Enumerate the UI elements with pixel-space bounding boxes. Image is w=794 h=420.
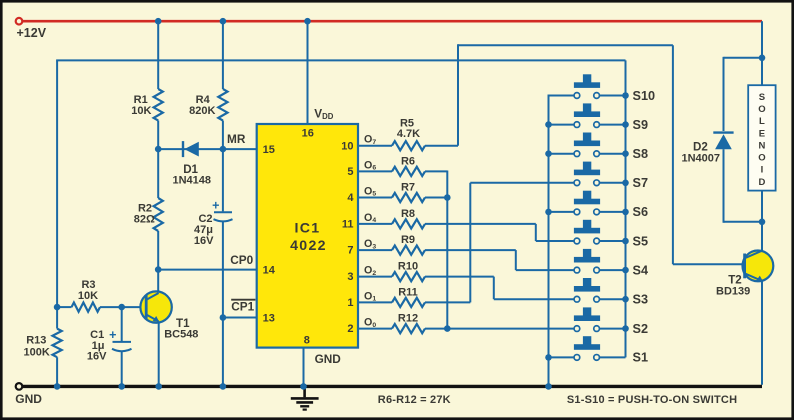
wire S8 left lead bbox=[549, 153, 575, 155]
wire rail drop right bbox=[761, 21, 763, 58]
label O4 bbox=[364, 212, 376, 224]
node right bus S2 bbox=[622, 325, 629, 332]
wire O6 lead bbox=[358, 170, 392, 172]
svg-text:C1: C1 bbox=[90, 329, 104, 341]
wire CP1 row bbox=[223, 317, 257, 319]
wire O4 lead bbox=[358, 223, 392, 225]
node solenoid bottom bbox=[759, 219, 766, 226]
resistor R7 bbox=[392, 193, 425, 202]
label R5 value bbox=[397, 128, 420, 140]
label R11 bbox=[398, 286, 418, 298]
label R3 value bbox=[78, 290, 98, 302]
label VDD bbox=[314, 107, 334, 122]
wire R2 bottom bbox=[157, 231, 159, 270]
wire R11 right lead bbox=[425, 301, 470, 303]
label T1 bbox=[176, 317, 190, 330]
node gnd-CP1 branch bbox=[220, 383, 227, 390]
svg-text:5: 5 bbox=[347, 166, 353, 178]
label O2 bbox=[364, 265, 376, 277]
node gnd-left vertical bbox=[54, 383, 61, 390]
switch S10 bbox=[574, 74, 600, 98]
switch S7 bbox=[574, 162, 600, 186]
resistor R3 bbox=[72, 303, 101, 312]
wire O5 lead bbox=[358, 197, 392, 199]
label R13 bbox=[26, 335, 46, 347]
label C1 voltage bbox=[87, 350, 107, 362]
svg-text:16V: 16V bbox=[194, 235, 214, 247]
node gnd-T1 emitter bbox=[155, 383, 162, 390]
label S5 bbox=[633, 234, 649, 248]
label C2 plus bbox=[212, 199, 219, 213]
svg-text:820K: 820K bbox=[189, 105, 215, 117]
label MR bbox=[227, 132, 246, 146]
svg-text:S2: S2 bbox=[633, 322, 649, 336]
svg-text:S: S bbox=[759, 92, 765, 103]
label C1 bbox=[90, 329, 104, 341]
wire R6 right lead bbox=[425, 170, 447, 172]
pin 3 label bbox=[347, 271, 353, 283]
resistor R5 bbox=[392, 141, 425, 150]
svg-text:4.7K: 4.7K bbox=[397, 128, 420, 140]
svg-text:GND: GND bbox=[15, 392, 42, 406]
wire S3 right lead bbox=[600, 298, 626, 300]
wire R9 right lead bbox=[425, 249, 516, 251]
svg-text:S5: S5 bbox=[633, 234, 649, 248]
wire R4 top bbox=[222, 21, 224, 89]
wire C1 bottom lead bbox=[121, 352, 123, 387]
pin 7 label bbox=[347, 245, 353, 257]
note S1-S10 bbox=[567, 394, 737, 406]
wire R8 to S5 bbox=[536, 240, 574, 242]
pin 2 label bbox=[347, 323, 353, 335]
svg-text:CP0: CP0 bbox=[230, 253, 253, 267]
svg-text:3: 3 bbox=[347, 271, 353, 283]
label C2 bbox=[198, 213, 212, 225]
label IC1 bbox=[295, 221, 321, 237]
node left bus S8 bbox=[545, 150, 552, 157]
wire C2 bottom lead bbox=[222, 222, 224, 318]
wire solenoid bottom lead bbox=[761, 191, 763, 222]
wire S9 left lead bbox=[549, 124, 575, 126]
wire R10 to S3 bbox=[494, 298, 574, 300]
wire CP0 row bbox=[158, 269, 257, 271]
wire S10 right lead bbox=[600, 95, 626, 97]
label R4 value bbox=[189, 105, 215, 117]
wire R5 to T2 base (top horizontal) bbox=[458, 44, 673, 46]
wire +12V rail bbox=[22, 20, 762, 23]
label +12V bbox=[17, 26, 47, 40]
node R2-CP0 bbox=[155, 266, 162, 273]
svg-text:S3: S3 bbox=[633, 293, 649, 307]
node right bus S10 bbox=[622, 92, 629, 99]
svg-text:82Ω: 82Ω bbox=[134, 214, 155, 226]
svg-text:L: L bbox=[759, 116, 765, 127]
pin 15 label bbox=[263, 144, 275, 156]
svg-text:4: 4 bbox=[347, 192, 354, 204]
label C2 voltage bbox=[194, 235, 214, 247]
label R3 bbox=[81, 279, 95, 291]
wire R11 jog vertical bbox=[469, 183, 471, 303]
pin 8 label bbox=[304, 335, 310, 347]
wire R10 right lead bbox=[425, 276, 494, 278]
resistor R12 bbox=[392, 324, 425, 333]
label T2 bbox=[728, 274, 742, 287]
label S6 bbox=[633, 205, 649, 219]
note R6-R12 bbox=[378, 394, 451, 406]
svg-text:11: 11 bbox=[342, 219, 354, 231]
label R1 value bbox=[131, 105, 151, 117]
wire S9 right lead bbox=[600, 124, 626, 126]
label O5 bbox=[364, 186, 376, 198]
svg-text:16: 16 bbox=[302, 128, 314, 140]
node R7 junction bbox=[444, 194, 451, 201]
wire R11 to S7 bbox=[470, 182, 574, 184]
wire switch left bus bbox=[548, 95, 550, 387]
svg-text:4022: 4022 bbox=[290, 238, 327, 254]
svg-text:2: 2 bbox=[347, 323, 353, 335]
node solenoid top bbox=[759, 55, 766, 62]
label R8 bbox=[401, 208, 415, 220]
svg-text:13: 13 bbox=[263, 312, 275, 324]
wire S7 right lead bbox=[600, 182, 626, 184]
wire VDD bbox=[307, 21, 309, 124]
wire R13 top lead bbox=[56, 307, 58, 329]
label R9 bbox=[401, 234, 415, 246]
svg-text:S10: S10 bbox=[633, 89, 656, 103]
wire MR row bbox=[158, 148, 257, 150]
wire S4 right lead bbox=[600, 269, 626, 271]
wire O2 lead bbox=[358, 276, 392, 278]
pin 4 label bbox=[347, 192, 354, 204]
label C2 value bbox=[194, 224, 213, 236]
node right bus S8 bbox=[622, 150, 629, 157]
switch S8 bbox=[574, 133, 600, 157]
wire pin8 bbox=[303, 348, 305, 387]
resistor R1 bbox=[154, 89, 163, 121]
wire solenoid top lead bbox=[761, 58, 763, 85]
svg-text:BD139: BD139 bbox=[716, 285, 750, 297]
node gnd-switch left bus bbox=[545, 383, 552, 390]
svg-text:8: 8 bbox=[304, 335, 310, 347]
node right bus S6 bbox=[622, 209, 629, 216]
svg-text:1N4148: 1N4148 bbox=[173, 175, 212, 187]
wire R12 to S2 bbox=[425, 328, 574, 330]
node right bus S7 bbox=[622, 180, 629, 187]
wire O1 lead bbox=[358, 301, 392, 303]
svg-text:R6: R6 bbox=[401, 155, 415, 167]
transistor T1 bbox=[140, 291, 171, 322]
wire T2 collector bbox=[761, 222, 763, 252]
svg-text:S6: S6 bbox=[633, 205, 649, 219]
pin 16 label bbox=[302, 128, 314, 140]
diode D1 bbox=[183, 141, 199, 157]
wire S8 right lead bbox=[600, 153, 626, 155]
wire D2 bottom branch bbox=[724, 149, 763, 223]
resistor R8 bbox=[392, 219, 425, 228]
label S4 bbox=[633, 263, 649, 277]
label O0 bbox=[364, 317, 376, 329]
wire S10 left lead bbox=[549, 95, 575, 97]
solenoid L1 bbox=[748, 85, 775, 190]
label GND bbox=[15, 392, 42, 406]
node right bus S5 bbox=[622, 238, 629, 245]
label T2 type bbox=[716, 285, 750, 297]
label D2 bbox=[693, 141, 708, 154]
label S9 bbox=[633, 118, 649, 132]
label D2 value bbox=[682, 153, 721, 165]
wire CP1 to ground bbox=[222, 318, 224, 387]
label S8 bbox=[633, 147, 649, 161]
capacitor C1 bbox=[112, 342, 132, 351]
capacitor C2 bbox=[214, 212, 233, 221]
svg-text:D: D bbox=[758, 177, 765, 188]
label R2 bbox=[138, 202, 152, 214]
label S10 bbox=[633, 89, 656, 103]
wire C1 top lead bbox=[121, 307, 123, 341]
svg-text:10K: 10K bbox=[131, 105, 151, 117]
label S2 bbox=[633, 322, 649, 336]
svg-text:R9: R9 bbox=[401, 234, 415, 246]
wire R4 bottom bbox=[222, 121, 224, 150]
resistor R2 bbox=[154, 198, 163, 231]
svg-text:R8: R8 bbox=[401, 208, 415, 220]
wire T2 base horizontal bbox=[673, 263, 745, 265]
svg-text:14: 14 bbox=[263, 264, 276, 276]
terminal GND bbox=[16, 383, 23, 390]
wire D2 top branch bbox=[724, 57, 763, 131]
wire switch-bus return (horizontal) bbox=[56, 59, 625, 61]
resistor R9 bbox=[392, 246, 425, 255]
label D1 bbox=[183, 163, 198, 176]
label R5 bbox=[400, 118, 414, 130]
label S1 bbox=[633, 351, 649, 365]
label 4022 bbox=[290, 238, 327, 254]
svg-text:D2: D2 bbox=[693, 141, 708, 154]
wire R7 right lead bbox=[425, 197, 447, 199]
svg-text:16V: 16V bbox=[87, 350, 107, 362]
label O6 bbox=[364, 159, 376, 171]
wire R6-R7-R12 vertical bbox=[446, 170, 448, 328]
node R4-D1-C2 bbox=[220, 146, 227, 153]
label O3 bbox=[364, 238, 376, 250]
svg-text:S9: S9 bbox=[633, 118, 649, 132]
resistor R13 bbox=[53, 329, 62, 358]
svg-text:R11: R11 bbox=[398, 286, 418, 298]
pin 1 label bbox=[347, 297, 353, 309]
label GND pin8 bbox=[315, 352, 342, 366]
node left bus S1 bbox=[545, 354, 552, 361]
svg-text:MR: MR bbox=[227, 132, 246, 146]
terminal +12V bbox=[16, 18, 23, 25]
svg-text:S4: S4 bbox=[633, 263, 649, 277]
svg-text:R7: R7 bbox=[401, 182, 415, 194]
wire R3 right lead bbox=[100, 306, 146, 308]
node C2-CP1 bbox=[220, 314, 227, 321]
label C1 plus bbox=[109, 328, 116, 342]
wire R9 jog vertical bbox=[515, 250, 517, 270]
wire R5 right lead bbox=[425, 145, 458, 147]
label O1 bbox=[364, 290, 376, 302]
svg-text:10K: 10K bbox=[78, 290, 98, 302]
pin 5 label bbox=[347, 166, 353, 178]
label C1 value bbox=[92, 340, 105, 352]
label R1 bbox=[134, 94, 148, 106]
wire T2 base drop bbox=[672, 45, 674, 264]
node left-R3 bbox=[54, 304, 61, 311]
label S7 bbox=[633, 176, 649, 190]
wire R10 jog vertical bbox=[493, 277, 495, 300]
svg-text:O: O bbox=[758, 153, 765, 164]
svg-text:10: 10 bbox=[341, 140, 353, 152]
svg-text:E: E bbox=[759, 128, 765, 139]
wire S6 left lead bbox=[549, 211, 575, 213]
svg-text:+12V: +12V bbox=[17, 26, 47, 40]
ground symbol bbox=[291, 388, 319, 410]
label S3 bbox=[633, 293, 649, 307]
svg-text:1: 1 bbox=[347, 297, 353, 309]
svg-text:GND: GND bbox=[315, 352, 342, 366]
svg-text:R10: R10 bbox=[398, 261, 418, 273]
wire R1 bottom bbox=[157, 121, 159, 150]
switch S2 bbox=[574, 307, 600, 331]
pin 11 label bbox=[342, 219, 354, 231]
label R4 bbox=[196, 94, 211, 106]
node left bus S6 bbox=[545, 209, 552, 216]
svg-text:N: N bbox=[758, 140, 765, 151]
switch S4 bbox=[574, 249, 600, 273]
svg-text:S1: S1 bbox=[633, 351, 649, 365]
wire R8 jog vertical bbox=[535, 224, 537, 241]
label R6 bbox=[401, 155, 415, 167]
svg-text:O: O bbox=[758, 104, 765, 115]
label O7 bbox=[364, 134, 376, 146]
wire R1 top bbox=[157, 21, 159, 89]
switch S1 bbox=[574, 336, 600, 360]
wire S2 right lead bbox=[600, 328, 626, 330]
wire S5 right lead bbox=[600, 240, 626, 242]
wire R13 bottom lead bbox=[56, 357, 58, 386]
svg-text:BC548: BC548 bbox=[164, 329, 198, 341]
label D1 value bbox=[173, 175, 212, 187]
svg-text:S7: S7 bbox=[633, 176, 649, 190]
label R7 bbox=[401, 182, 415, 194]
label R13 value bbox=[24, 347, 50, 359]
svg-text:7: 7 bbox=[347, 245, 353, 257]
svg-text:R12: R12 bbox=[398, 313, 418, 325]
transistor T2 bbox=[743, 251, 774, 282]
resistor R11 bbox=[392, 298, 425, 307]
node left bus S9 bbox=[545, 121, 552, 128]
svg-text:C2: C2 bbox=[198, 213, 212, 225]
resistor R10 bbox=[392, 272, 425, 281]
pin 14 label bbox=[263, 264, 276, 276]
svg-text:I: I bbox=[761, 165, 764, 176]
svg-text:1N4007: 1N4007 bbox=[682, 153, 721, 165]
resistor R6 bbox=[392, 167, 425, 176]
wire S1 right lead bbox=[600, 356, 626, 358]
svg-text:S1-S10 = PUSH-TO-ON SWITCH: S1-S10 = PUSH-TO-ON SWITCH bbox=[567, 394, 737, 406]
wire R8 right lead bbox=[425, 223, 536, 225]
svg-text:S8: S8 bbox=[633, 147, 649, 161]
svg-text:CP1: CP1 bbox=[231, 300, 254, 314]
label T1 type bbox=[164, 329, 198, 341]
switch S5 bbox=[574, 220, 600, 244]
wire O7 lead bbox=[358, 145, 392, 147]
label CP0 bbox=[230, 253, 253, 267]
node rail-R4 bbox=[220, 18, 227, 25]
wire ground line bbox=[22, 385, 762, 388]
wire R2 top bbox=[157, 149, 159, 198]
wire O0 lead bbox=[358, 328, 392, 330]
svg-text:100K: 100K bbox=[24, 347, 50, 359]
wire R5 riser bbox=[457, 44, 459, 145]
svg-text:R6-R12 = 27K: R6-R12 = 27K bbox=[378, 394, 451, 406]
node rail-R1 bbox=[155, 18, 162, 25]
node R1-D1 bbox=[155, 146, 162, 153]
wire switch-bus return (left vertical) bbox=[56, 60, 58, 307]
node gnd-C1 bbox=[118, 383, 125, 390]
label R12 bbox=[398, 313, 418, 325]
label CP1 bbox=[231, 300, 255, 314]
wire O3 lead bbox=[358, 249, 392, 251]
wire R3 left lead bbox=[57, 306, 71, 308]
pin 13 label bbox=[263, 312, 275, 324]
wire T1 collector bbox=[157, 270, 159, 293]
node right bus S9 bbox=[622, 121, 629, 128]
node R3-C1-base bbox=[118, 304, 125, 311]
switch S6 bbox=[574, 191, 600, 215]
label R10 bbox=[398, 261, 418, 273]
op-amp U1 IC1 4022 body bbox=[257, 124, 358, 348]
wire T1 emitter bbox=[158, 321, 160, 386]
svg-text:+: + bbox=[212, 199, 219, 213]
svg-text:R2: R2 bbox=[138, 202, 152, 214]
node rail-VDD bbox=[304, 18, 311, 25]
switch S3 bbox=[574, 278, 600, 302]
label R2 value bbox=[134, 214, 155, 226]
node pin8-gnd bbox=[300, 383, 307, 390]
svg-text:IC1: IC1 bbox=[295, 221, 321, 237]
svg-text:+: + bbox=[109, 328, 116, 342]
switch S9 bbox=[574, 103, 600, 127]
svg-text:R13: R13 bbox=[26, 335, 46, 347]
wire S1 left lead bbox=[549, 356, 575, 358]
wire R9 to S4 bbox=[516, 269, 574, 271]
node R12 junction bbox=[444, 325, 451, 332]
resistor R4 bbox=[218, 89, 227, 121]
svg-text:15: 15 bbox=[263, 144, 275, 156]
wire T2 emitter bbox=[761, 281, 763, 385]
pin 10 label bbox=[341, 140, 353, 152]
wire S6 right lead bbox=[600, 211, 626, 213]
wire switch right bus bbox=[625, 60, 627, 357]
diode D2 bbox=[713, 133, 733, 150]
wire C2 top lead bbox=[222, 149, 224, 211]
node right bus S3 bbox=[622, 296, 629, 303]
node right bus S4 bbox=[622, 267, 629, 274]
